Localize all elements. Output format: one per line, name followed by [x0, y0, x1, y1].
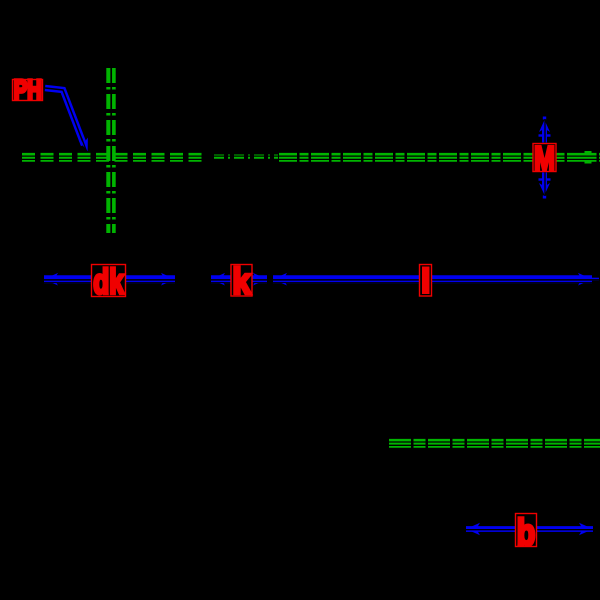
optical axis: left dashed green segment	[22, 153, 205, 162]
pinhole plane: vertical dashed green line	[106, 68, 115, 233]
label b	[516, 512, 537, 553]
svg-text:M: M	[534, 140, 555, 178]
optical axis: black core stripes	[22, 155, 600, 157]
label dk	[92, 263, 126, 302]
optical axis: tall tick near right end	[585, 151, 592, 164]
pinhole plane: black core stripe	[110, 68, 112, 233]
label k	[231, 261, 252, 302]
image plane axis: black core stripes	[389, 441, 600, 443]
optical axis: middle thin dash-dot green segment	[214, 155, 278, 160]
leader arrow from PH to pinhole	[45, 88, 84, 145]
label l	[420, 265, 432, 297]
dimension arrow dk	[44, 275, 175, 283]
leader arrowhead	[79, 137, 93, 152]
svg-text:b: b	[517, 512, 536, 553]
dimension arrow b	[466, 526, 593, 532]
M upper measurement arrow	[542, 126, 547, 143]
dimension arrow k	[211, 275, 267, 283]
label PH	[13, 74, 43, 105]
optical axis: right dense dashed green segment	[279, 153, 600, 162]
svg-text:k: k	[233, 261, 252, 302]
M lower measurement arrow	[542, 173, 547, 190]
label M with measurement box	[533, 140, 556, 178]
svg-text:PH: PH	[14, 74, 42, 105]
dimension arrow l	[273, 275, 592, 283]
svg-text:dk: dk	[93, 263, 124, 302]
image plane axis: bottom-right dashed green line	[389, 439, 600, 448]
